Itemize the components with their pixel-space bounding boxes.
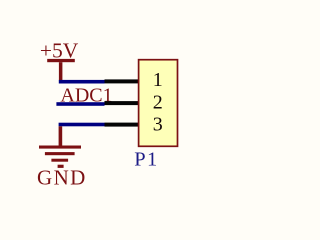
pin 1 [105, 79, 139, 83]
pin 2 [105, 101, 139, 105]
ground symbol [39, 126, 81, 168]
svg-text:2: 2 [153, 91, 163, 113]
connector P1 [139, 60, 178, 147]
svg-text:1: 1 [153, 69, 163, 91]
wire ground to pin 3 [59, 123, 105, 127]
svg-text:P1: P1 [134, 148, 158, 170]
svg-text:GND: GND [37, 166, 87, 190]
svg-text:3: 3 [153, 114, 163, 136]
power symbol +5V [40, 39, 79, 81]
wire ADC1 to pin 2 [56, 102, 104, 106]
pin 3 [105, 123, 139, 127]
wire +5V to pin 1 [59, 80, 105, 84]
